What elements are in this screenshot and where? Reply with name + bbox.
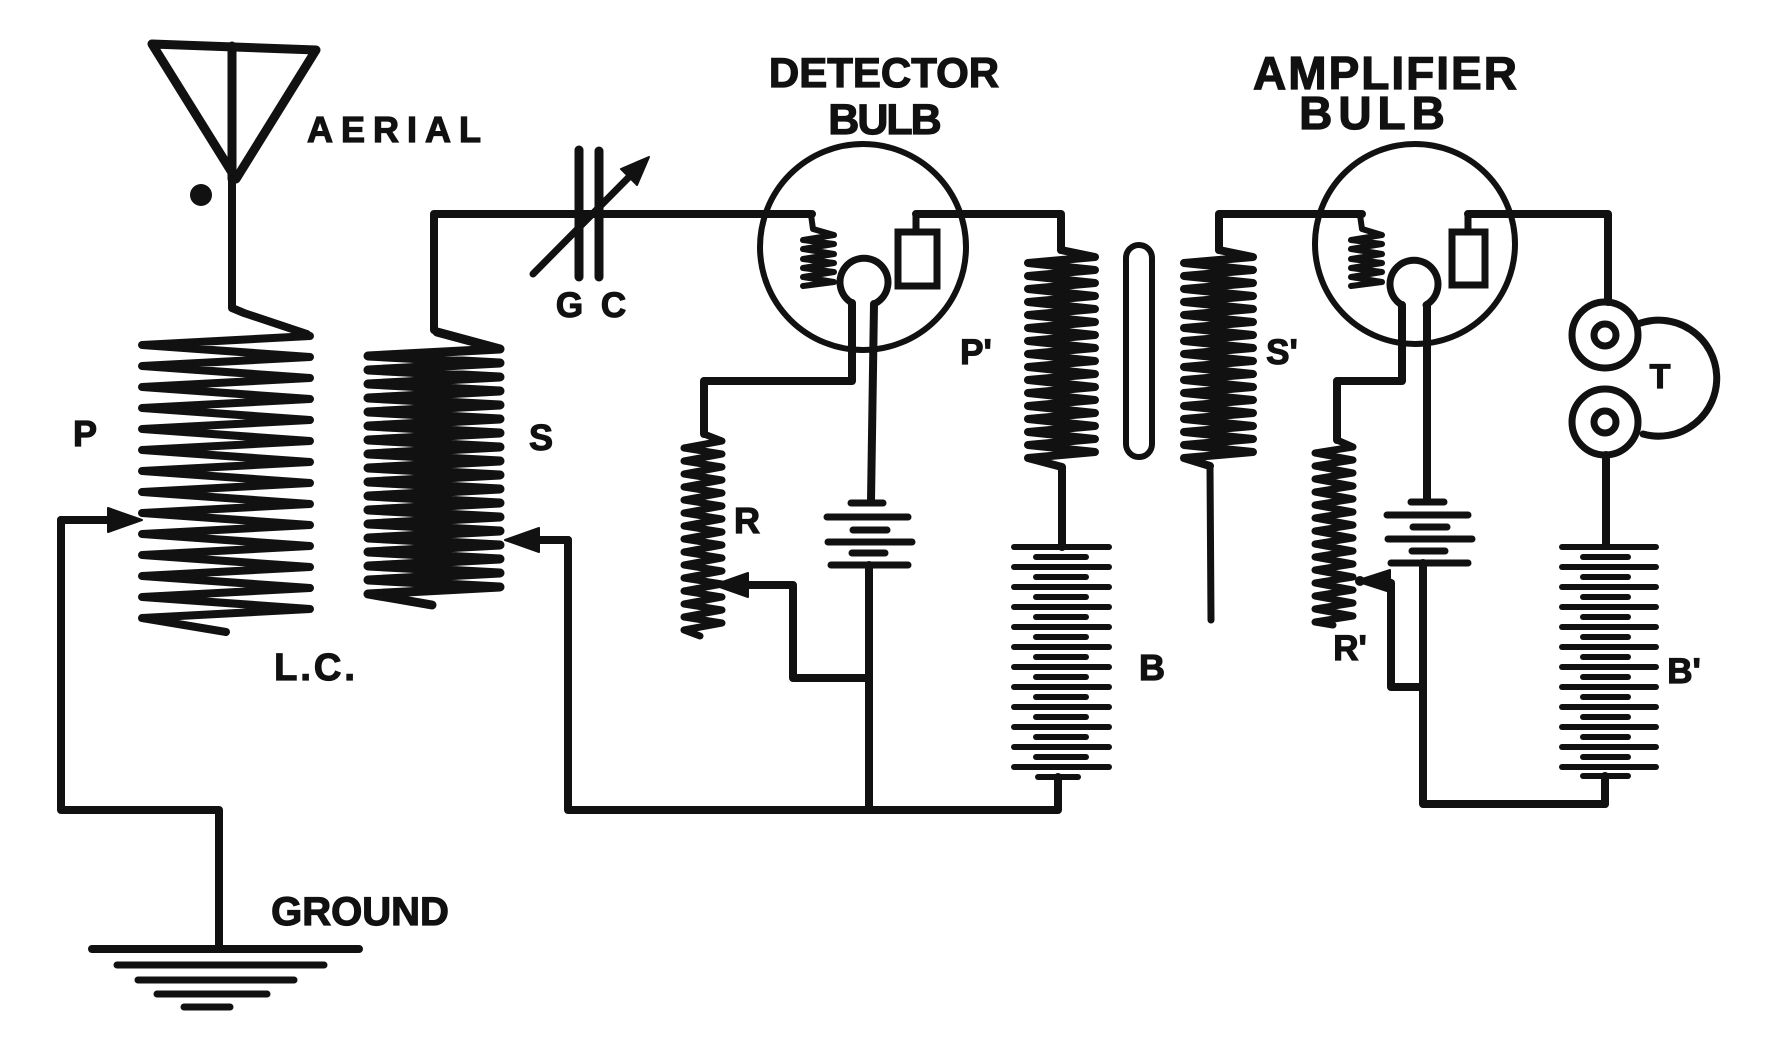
- plate of amplifier bulb: [1452, 232, 1485, 285]
- capacitor GC (grid condenser): [575, 150, 584, 277]
- wire phones to B' battery: [1602, 455, 1610, 546]
- transformer iron core: [1126, 245, 1152, 457]
- wire tap arrow into P: [61, 516, 114, 524]
- plate of detector bulb: [898, 232, 937, 286]
- antenna AERIAL: [152, 44, 316, 179]
- wire plate to phones: [1468, 214, 1608, 302]
- inductor S (loose coupler secondary): [368, 332, 500, 605]
- wire filament left leg to rheostat R: [704, 303, 852, 434]
- battery A' (filament battery, amplifier): [1411, 499, 1444, 506]
- filament of detector bulb: [840, 258, 888, 303]
- arrow across GC: [533, 176, 630, 274]
- wire plate to P': [916, 214, 1061, 250]
- inductor P (loose coupler primary): [142, 336, 310, 632]
- svg-text:L.C.: L.C.: [274, 647, 358, 689]
- wire A battery to bottom return: [865, 565, 873, 810]
- wire aerial lead down to coil P: [232, 179, 307, 334]
- battery B (plate battery, detector): [1058, 468, 1066, 547]
- svg-text:S: S: [529, 417, 553, 458]
- svg-text:GROUND: GROUND: [271, 890, 449, 934]
- resistor R' (filament rheostat): [1315, 440, 1353, 625]
- svg-text:B': B': [1667, 652, 1701, 691]
- inductor P' (transformer primary): [1028, 250, 1095, 467]
- wire B battery bottom to return: [1054, 777, 1062, 806]
- grid of amplifier bulb: [1351, 215, 1382, 286]
- svg-text:BULB: BULB: [828, 96, 940, 144]
- wire A' battery to bottom return: [1423, 563, 1605, 804]
- ground: [92, 945, 359, 953]
- grid of detector bulb: [803, 215, 834, 286]
- wire S' top to amplifier grid: [1219, 214, 1362, 250]
- svg-text:BULB: BULB: [1299, 87, 1451, 139]
- wire S top to grid condenser: [434, 214, 812, 330]
- inductor S' (transformer secondary): [1184, 250, 1253, 466]
- filament of amplifier bulb: [1390, 260, 1438, 305]
- battery A (filament battery, detector): [851, 500, 883, 507]
- wire R wiper arrow to battery negative: [714, 573, 748, 597]
- wire left vertical from P tap to ground run: [61, 520, 219, 949]
- svg-text:S': S': [1266, 333, 1298, 372]
- svg-text:P: P: [73, 413, 97, 454]
- wire S tap arrow / bottom return: [539, 536, 568, 544]
- svg-text:G C: G C: [556, 286, 630, 325]
- wire S' bottom dangling lead: [1210, 466, 1211, 620]
- wire filament right leg to A' battery: [1423, 305, 1431, 500]
- wire filament right leg to A battery: [871, 304, 874, 501]
- wire B' bottom to return: [1601, 776, 1609, 804]
- vacuum tube V1 (detector bulb) envelope: [760, 144, 966, 350]
- wire R' wiper arrow to battery negative: [1356, 570, 1390, 592]
- svg-text:P': P': [960, 333, 992, 372]
- vacuum tube V2 (amplifier bulb) envelope: [1315, 144, 1515, 344]
- battery B' (plate battery, amplifier): [1562, 544, 1656, 550]
- svg-text:DETECTOR: DETECTOR: [769, 49, 999, 96]
- headband arc of phones: [1638, 320, 1717, 436]
- node dot on aerial lead: [190, 184, 212, 206]
- svg-text:T: T: [1650, 358, 1671, 396]
- telephone receivers T: [1572, 302, 1638, 368]
- svg-text:R: R: [734, 500, 760, 541]
- resistor R (filament rheostat): [684, 434, 722, 636]
- svg-text:R': R': [1333, 629, 1367, 668]
- svg-text:B: B: [1139, 647, 1165, 688]
- svg-text:AERIAL: AERIAL: [307, 109, 489, 150]
- wire filament left leg to rheostat R': [1337, 305, 1402, 440]
